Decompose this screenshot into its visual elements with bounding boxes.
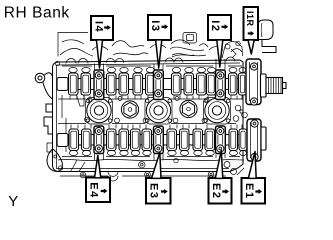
corner hole TL (55, 61, 59, 65)
small holes mid band (85, 97, 248, 123)
exhaust lobes cyl2 (193, 129, 203, 151)
lifting hook (35, 73, 52, 99)
callout box E3 (146, 153, 171, 204)
exhaust camshaft rails (58, 135, 247, 146)
callout box I4 (91, 16, 113, 68)
intake lobes cyl4 (69, 73, 79, 95)
spark plug tube cyl3 (145, 98, 172, 125)
intake lobes cyl3 (133, 73, 143, 95)
bottom left bulge (47, 149, 62, 172)
top casting backdrop lines (58, 33, 242, 57)
bearing cap I4 (94, 70, 104, 100)
panel line below exhaust (62, 156, 240, 158)
spring ovals below exhaust (69, 150, 246, 155)
intake splined stub (266, 78, 286, 94)
left edge tabs (44, 104, 53, 134)
head outline (53, 60, 244, 172)
exhaust front disc (261, 127, 266, 150)
svg-text:I1R: I1R (245, 11, 255, 27)
bracket plate right of I2 (222, 42, 243, 59)
lifter ticks (70, 96, 242, 100)
svg-text:E1: E1 (243, 183, 255, 199)
bottom tab bump (108, 172, 118, 177)
tab arm right of I1R (262, 40, 276, 53)
cap inner lines (96, 80, 222, 145)
svg-text:E4: E4 (88, 182, 100, 198)
dipstick tube top (183, 33, 197, 44)
svg-text:RH Bank: RH Bank (4, 4, 70, 21)
intake camshaft rails (58, 79, 246, 90)
exhaust shaft left end (57, 134, 68, 147)
svg-text:E3: E3 (148, 183, 160, 199)
callout box I2 (208, 15, 231, 67)
svg-text:I4: I4 (92, 21, 104, 33)
exhaust lobes cyl4 (69, 129, 79, 151)
bottom band lines (58, 159, 244, 160)
front bearing cap E1 (247, 119, 261, 161)
callout box E2 (209, 151, 232, 204)
spring ovals above intake (69, 67, 246, 72)
front bearing cap I1R (246, 59, 261, 105)
callout box I3 (148, 15, 171, 68)
callout box E1 (242, 152, 266, 204)
bearing cap E4 (94, 126, 104, 154)
lobe inner lines (70, 75, 76, 93)
top edge bumps (66, 57, 235, 64)
bearing cap I2 (216, 70, 226, 100)
boss blob right of I1R (258, 20, 273, 40)
corner hole BL (58, 166, 62, 170)
spark plug tube cyl2 (204, 98, 231, 125)
callout box E4 (86, 156, 110, 203)
bottom right bracket (219, 155, 244, 175)
bottom small circles (80, 172, 86, 178)
hex bolt A (121, 101, 138, 118)
intake shaft left end (57, 78, 68, 91)
oil wedge below intake cyl4 (74, 88, 84, 106)
svg-text:I3: I3 (149, 20, 161, 32)
svg-text:E2: E2 (210, 183, 222, 199)
panel line above intake (62, 65, 242, 67)
spark plug tube cyl4 (86, 98, 113, 125)
hex bolt B (180, 100, 197, 117)
svg-text:I2: I2 (209, 20, 221, 32)
bearing cap E3 (154, 126, 164, 154)
bearing cap I3 (154, 70, 164, 100)
svg-text:Y: Y (8, 193, 18, 210)
bearing cap E2 (216, 126, 226, 154)
exhaust lobes cyl3 (131, 129, 141, 151)
callout box I1R (244, 7, 259, 54)
cap towers intake (95, 59, 226, 70)
mid contour lines (58, 98, 243, 100)
cap towers exhaust (95, 154, 226, 161)
intake front disc (261, 74, 267, 97)
bottom left diagonals (70, 160, 85, 172)
intake lobes cyl2 (197, 73, 207, 95)
